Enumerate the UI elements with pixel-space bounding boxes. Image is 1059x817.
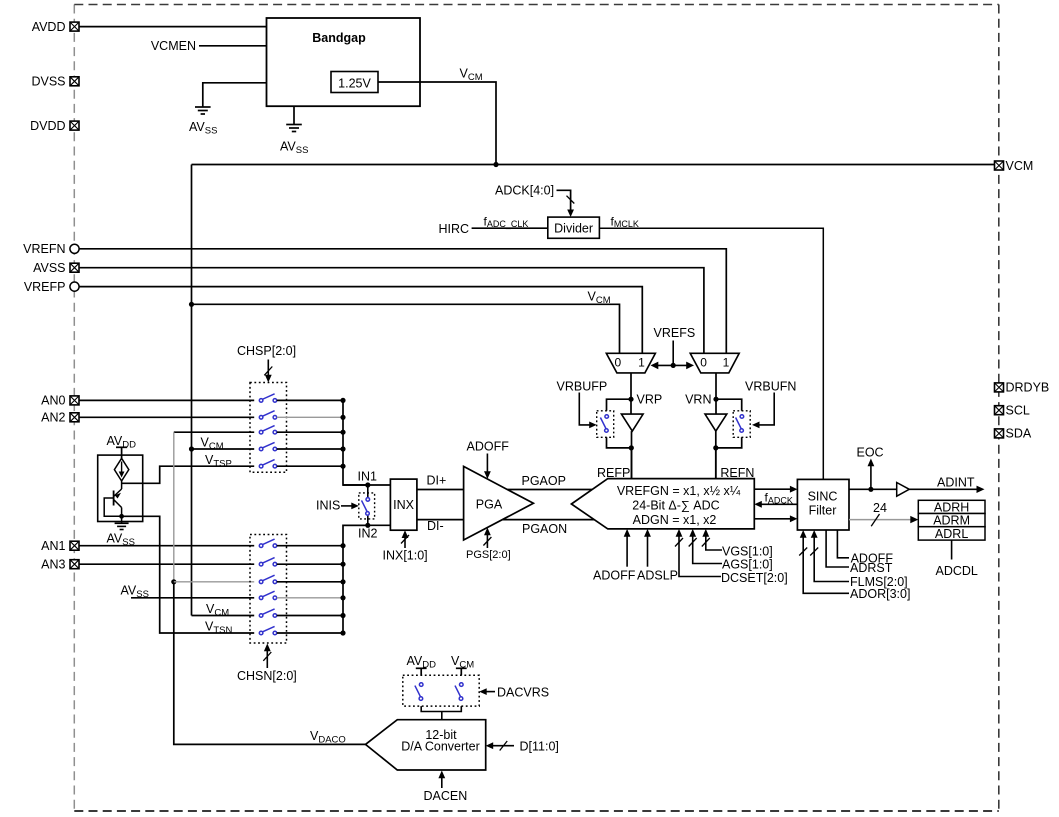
wire VDACO to CHSP row [174,431,254,433]
svg-text:1.25V: 1.25V [338,76,371,90]
wire AVSS to CHSN row [131,597,254,599]
wire ADSLP arrow into ADC bottom [647,535,649,567]
svg-text:D/A Converter: D/A Converter [401,740,480,754]
svg-text:VREFP: VREFP [24,280,66,294]
bus slash ADCK [567,196,575,204]
wire ADOR arrow into SINC bottom [803,536,849,593]
wire CHSN bus to IN2 [343,525,368,633]
wire CHSP AN2 output [277,416,343,418]
wire VCMEN to Bandgap [199,45,267,47]
svg-text:fADC_CLK: fADC_CLK [484,214,529,229]
chip boundary dashed border top [74,4,999,6]
wire AGS arrow into ADC bottom [693,535,722,564]
wire ADOFF arrow into ADC bottom [626,535,628,567]
wire DACVRS control arrow [485,691,495,693]
svg-text:AVSS: AVSS [189,120,217,137]
wire IN1 to INX [343,484,390,486]
svg-text:ADRH: ADRH [934,500,969,514]
svg-text:SDA: SDA [1006,427,1032,441]
svg-text:PGAOP: PGAOP [522,474,566,488]
wire DI+ [417,489,464,491]
wire PGAON [502,519,594,521]
wire ADC data2 to SINC [754,518,792,520]
svg-text:AN3: AN3 [41,557,65,571]
svg-text:DCSET[2:0]: DCSET[2:0] [721,571,788,585]
pin AVSS [70,263,79,272]
wire CHSP bus to IN1 [343,400,368,485]
switch CHSP VCM [259,442,276,450]
wire CHSP VTSP output [277,465,343,467]
svg-text:AN0: AN0 [41,394,65,408]
svg-text:VREFN: VREFN [23,242,65,256]
wire VCM to CHSN row [192,615,255,617]
bus slash CHSP [264,367,272,376]
svg-text:ADCK[4:0]: ADCK[4:0] [495,184,554,198]
switch VRBUFN bypass [733,411,750,438]
switch CHSN VTSN [259,626,276,634]
pin AN1 [70,541,79,550]
block Bandgap [267,18,421,106]
switch CHSN AN1 [259,539,276,547]
wire VRBUFN control arrow [758,393,774,425]
wire VRBUFP control arrow [579,393,590,425]
wire CHSN VDACO output [277,581,343,583]
svg-text:AVSS: AVSS [280,140,308,157]
svg-text:IN2: IN2 [358,526,378,540]
wire VTSP to CHSP row [143,466,255,483]
wire fMCLK Divider to SINC filter [599,228,823,479]
junction VCM to mux [189,302,194,307]
wire CHSN control arrow [266,649,268,668]
wire buffer to REFN [715,431,717,479]
svg-text:VGS[1:0]: VGS[1:0] [722,544,773,558]
wire 1.25V output to VCM net [378,82,496,165]
junction IN2 [365,523,370,528]
svg-text:fMCLK: fMCLK [611,214,639,229]
switch CHSN VCM [259,609,276,617]
svg-text:AN1: AN1 [41,539,65,553]
wire AN3 to CHSN [79,563,254,565]
wire DACEN arrow into DAC [441,777,443,789]
svg-text:DACVRS: DACVRS [497,685,549,699]
wire right mux output to VRN [715,373,717,414]
pin AN2 [70,413,79,422]
svg-text:0: 0 [614,355,621,369]
svg-text:VRBUFP: VRBUFP [557,380,608,394]
wire VREFS select [672,341,674,366]
wire DACVRS to DAC [421,706,461,711]
svg-text:Bandgap: Bandgap [312,31,366,45]
svg-text:DI+: DI+ [427,473,447,487]
svg-text:PGS[2:0]: PGS[2:0] [466,549,511,561]
ADC delta-sigma block [571,479,754,529]
svg-text:FLMS[2:0]: FLMS[2:0] [850,575,908,589]
pin VREFN [70,244,79,253]
svg-text:fADCK: fADCK [765,491,793,506]
mux VREFP select [606,353,655,373]
switch CHSP VDACO [259,426,276,434]
op-amp VRN buffer [705,414,727,431]
wire REFN into ADC [715,448,717,479]
svg-text:AGS[1:0]: AGS[1:0] [722,558,773,572]
ground below temp sensor [121,516,123,523]
DAC 12-bit D/A converter block [366,720,486,770]
junction EOC [868,487,873,492]
svg-text:VDACO: VDACO [310,729,346,746]
wire D[11:0] arrow into DAC [492,745,515,747]
wire INX control arrow [404,536,406,548]
buffer ADINT driver [897,483,910,497]
wire VCM to left mux input 0 [192,304,620,353]
switch bank DACVRS [403,675,479,706]
ground AVSS below Bandgap [293,106,295,124]
bus slash 24 [871,514,879,526]
svg-text:D[11:0]: D[11:0] [520,739,559,753]
switch CHSP AN0 [259,394,276,402]
junction REFN [713,445,718,450]
pin VREFP [70,282,79,291]
svg-text:DVSS: DVSS [31,75,65,89]
wire INIS control arrow [341,505,353,507]
pin DVDD [70,121,79,130]
svg-text:IN1: IN1 [358,470,378,484]
wire IN2 to INX [343,524,390,526]
svg-text:EOC: EOC [857,446,884,460]
switch CHSP VTSP [259,460,276,468]
wire CHSP VCM output [277,448,343,450]
pin DRDYB [995,383,1004,392]
svg-text:Filter: Filter [809,504,837,518]
wire CHSP control arrow [267,360,269,377]
svg-text:ADRM: ADRM [933,514,970,528]
svg-text:DVDD: DVDD [30,119,65,133]
junction REFP [629,445,634,450]
svg-text:DI-: DI- [427,519,444,533]
temperature sensor block [98,455,143,521]
wire CHSN AN1 output [277,545,343,547]
bus slash CHSN [263,652,271,661]
switch CHSN VDACO [259,575,276,583]
wire DCSET arrow into ADC bottom [679,535,721,577]
junction VCM to CHSP [189,446,194,451]
register ADRL [918,527,985,540]
wire PGS control arrow [486,534,488,549]
svg-text:PGA: PGA [476,497,503,511]
chip boundary dashed border right [998,5,1000,812]
switch CHSN AVSS [259,591,276,599]
junction VRN [713,397,718,402]
wire VREFP to left mux input 1 [79,287,642,354]
switch bank CHSN [250,535,287,644]
svg-text:ADCDL: ADCDL [936,564,978,578]
svg-text:ADGN = x1, x2: ADGN = x1, x2 [633,513,717,527]
svg-text:0: 0 [700,355,707,369]
register ADRM [918,514,985,527]
wire HIRC to Divider [472,227,548,229]
block 1.25V reference [331,72,378,93]
register ADRH [918,500,985,513]
ground AVSS left of Bandgap [195,107,211,114]
wire fADCK SINC to ADC [760,503,797,505]
switch VRBUFP bypass [597,411,614,438]
svg-text:VCMEN: VCMEN [151,39,196,53]
svg-text:INX[1:0]: INX[1:0] [383,548,428,562]
switch bank CHSP [250,383,287,473]
svg-text:1: 1 [723,355,730,369]
svg-text:AVSS: AVSS [33,261,65,275]
svg-text:ADOFF: ADOFF [593,569,636,583]
svg-text:24: 24 [873,501,887,515]
current source diamond in temp sensor [114,458,128,481]
junction IN1 [365,482,370,487]
wire buffer to REFP [631,431,633,479]
switch CHSN AN3 [259,558,276,566]
svg-text:VRBUFN: VRBUFN [745,380,796,394]
svg-text:VCM: VCM [460,67,483,84]
svg-text:AN2: AN2 [41,411,65,425]
svg-text:ADOFF: ADOFF [851,552,894,566]
block INX input mux [390,479,417,530]
svg-text:VRN: VRN [685,392,711,406]
svg-text:24-Bit Δ-∑ ADC: 24-Bit Δ-∑ ADC [632,499,719,513]
pin AN0 [70,396,79,405]
wire SINC to ADINT [849,488,897,490]
svg-text:DACEN: DACEN [424,789,468,803]
chip boundary dashed border left [73,5,75,812]
svg-text:ADSLP: ADSLP [637,569,678,583]
switch DACVRS VCM [455,683,463,701]
switch CHSP AN2 [259,411,276,419]
pin AN3 [70,560,79,569]
wire CHSN VCM output [277,615,343,617]
svg-text:INX: INX [393,498,415,512]
svg-text:INIS: INIS [316,499,340,513]
wire ADOFF into SINC bottom [837,530,849,558]
chip boundary dashed border bottom [74,810,999,812]
block Divider [548,217,600,238]
wire VRP switch branch [607,399,632,411]
wire VRBUFN bypass bottom [716,437,742,448]
svg-text:DRDYB: DRDYB [1006,381,1050,395]
wire AN1 to CHSN [79,545,254,547]
bus slash INX [401,535,409,544]
svg-text:SCL: SCL [1006,404,1030,418]
svg-text:Divider: Divider [554,222,593,236]
svg-text:VRP: VRP [637,392,663,406]
svg-text:ADRL: ADRL [935,527,968,541]
wire VREFN to right mux input 1 [79,249,726,353]
switch DACVRS AVDD [415,683,423,701]
wire AVDD pin to Bandgap [79,26,267,28]
junction VCM [493,162,498,167]
wire VTSN from temp sensor [122,516,255,633]
wire ADOFF arrow into PGA [486,454,488,474]
wire ADCK to Divider [557,190,571,211]
switch INIS [367,485,369,498]
svg-text:CHSN[2:0]: CHSN[2:0] [237,669,297,683]
wire VDACO to CHSN row [174,581,254,583]
wire VCM to CHSP row [192,448,255,450]
wire ADRST into SINC bottom [826,530,849,567]
pin AVDD [70,22,79,31]
wire ADCDL [951,540,953,559]
wire AN2 to CHSP [79,416,254,418]
wire VRN switch branch [716,399,742,411]
wire CHSP AN0 output [277,399,343,401]
svg-text:HIRC: HIRC [439,222,470,236]
svg-text:1: 1 [638,355,645,369]
wire VGS arrow into ADC bottom [706,535,722,550]
wire VRBUFP bypass bottom [607,437,632,448]
wire CHSN AN3 output [277,563,343,565]
wire VCM vertical rail [191,165,193,616]
svg-text:VREFS: VREFS [654,326,696,340]
svg-text:AVDD: AVDD [32,20,66,34]
wire left mux output to VRP [630,373,632,414]
pin DVSS [70,77,79,86]
block SINC Filter [797,479,849,530]
bus slash PGS [483,537,491,546]
wire ADINT out [909,488,979,490]
wire AVSS to right mux input 0 [79,268,704,354]
svg-text:VCM: VCM [1006,159,1034,173]
wire CHSN VTSN output [277,632,343,634]
wire VDACO rail [173,432,175,582]
pin SDA [995,429,1004,438]
wire PGAOP [507,489,592,491]
wire EOC arrow up [870,465,872,490]
wire DI- [417,519,464,521]
svg-text:SINC: SINC [808,489,838,503]
mux VREFN select [690,353,739,373]
wire CHSP VDACO output [277,431,343,433]
op-amp VRP buffer [621,414,643,431]
pin VCM [995,161,1004,170]
svg-text:VREFGN = x1, x½ x¼: VREFGN = x1, x½ x¼ [617,484,741,498]
wire REFP into ADC [631,448,633,479]
svg-text:PGAON: PGAON [522,522,567,536]
svg-text:ADOFF: ADOFF [467,440,510,454]
junction VRP [628,397,633,402]
wire 24-bit data bus to registers [849,519,913,521]
wire VTSP from temp sensor [122,482,143,484]
wire ADC data to SINC [754,488,792,490]
svg-text:ADINT: ADINT [937,475,975,489]
wire AN0 to CHSP [79,399,254,401]
svg-text:CHSP[2:0]: CHSP[2:0] [237,344,296,358]
wire CHSN AVSS output [277,597,343,599]
wire FLMS arrow into SINC bottom [814,536,849,582]
junction VDACO to CHSN [171,579,176,584]
wire Bandgap left ground [203,83,267,107]
op-amp PGA [464,466,534,540]
pin SCL [995,406,1004,415]
transistor Q1 diode-connected in temp sensor [121,481,123,489]
wire VCM horizontal rail [192,164,995,166]
